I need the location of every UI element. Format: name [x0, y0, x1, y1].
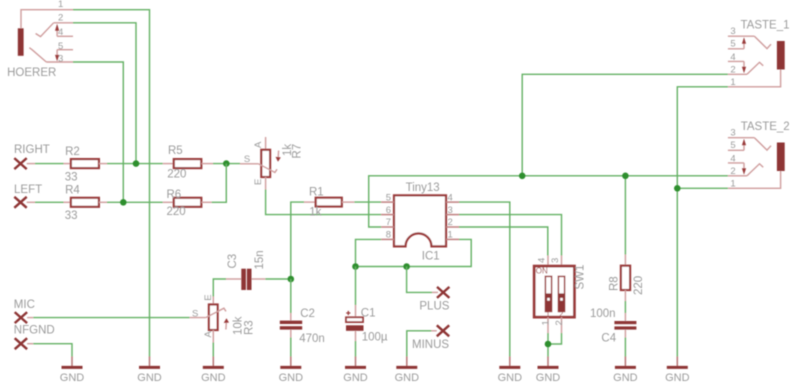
svg-text:4: 4 [448, 192, 453, 203]
wire R4 to R6 [107, 201, 163, 203]
wire SW1 pins to GND [547, 333, 549, 357]
ground C4 [613, 357, 638, 385]
TASTE_1 pin 1 [728, 70, 781, 87]
wire down to PLUS [407, 267, 432, 293]
wire IC pin8/pin1 net [356, 239, 472, 266]
svg-text:R1: R1 [309, 187, 324, 199]
HOERER pin 2 [54, 22, 73, 24]
HOERER pin 5 [57, 49, 73, 51]
wire C1 to GND [355, 341, 357, 357]
junction PLUS [403, 263, 410, 270]
svg-text:C4: C4 [601, 333, 616, 345]
svg-text:GND: GND [498, 372, 523, 384]
capacitor C4 [590, 308, 636, 344]
X mark RIGHT [14, 158, 26, 169]
wire C3 left to R3 E [213, 279, 226, 297]
svg-text:3: 3 [448, 205, 453, 216]
TASTE_1 pin 5 [728, 48, 744, 50]
svg-text:GND: GND [279, 372, 304, 384]
node MINUS [412, 325, 449, 351]
capacitor C2 [280, 308, 325, 345]
TASTE_1 arrow 4-2 [743, 61, 745, 67]
ground C2 [279, 357, 304, 385]
TASTE_2 pin 2 [728, 175, 747, 177]
svg-text:1: 1 [448, 230, 453, 241]
C1 plus mark [346, 311, 350, 315]
SW1 slider 2 [558, 276, 564, 311]
node RIGHT [14, 144, 50, 169]
trimmer R7 [240, 137, 303, 190]
ground MINUS [395, 357, 420, 385]
svg-text:100n: 100n [590, 308, 616, 320]
svg-text:5: 5 [730, 39, 735, 50]
svg-text:GND: GND [665, 372, 690, 384]
svg-text:MINUS: MINUS [412, 339, 449, 351]
svg-text:GND: GND [613, 372, 638, 384]
IC1 right pin stubs 4,3,2,1 [446, 202, 459, 239]
connector TASTE_1 [728, 20, 790, 89]
svg-text:4: 4 [730, 154, 735, 165]
svg-text:E: E [203, 294, 214, 300]
svg-text:33: 33 [65, 172, 78, 184]
wire C2 to GND [290, 338, 292, 357]
svg-text:5: 5 [58, 41, 63, 52]
svg-text:A: A [253, 141, 264, 148]
junction top net / R8 [622, 173, 629, 180]
resistor R2 [64, 146, 108, 184]
svg-text:Tiny13: Tiny13 [406, 182, 440, 194]
IC1 left pin stubs 5,6,7,8 [381, 202, 394, 239]
ground TASTE [665, 357, 690, 385]
wire R7 E to IC pin6 [266, 190, 382, 215]
svg-text:2: 2 [730, 166, 735, 177]
R7 arrow [277, 151, 279, 158]
svg-text:1: 1 [730, 77, 735, 88]
svg-text:8: 8 [386, 230, 391, 241]
wire R8 to C4 [624, 301, 626, 313]
svg-text:TASTE_1: TASTE_1 [741, 20, 790, 32]
HOERER arrow pin5-pin3 [56, 50, 58, 56]
svg-text:15n: 15n [254, 250, 266, 269]
TASTE_1 pin 3 [728, 35, 755, 37]
svg-text:GND: GND [137, 372, 162, 384]
capacitor C1 [346, 305, 388, 344]
wire HOERER pin3 to LEFT net [73, 62, 123, 202]
ground SW1 [536, 357, 561, 385]
wire HOERER pin1 to GND [73, 10, 150, 357]
svg-text:2: 2 [448, 217, 453, 228]
junction C1 [352, 263, 359, 270]
svg-text:4: 4 [58, 27, 63, 38]
svg-text:R3: R3 [243, 320, 255, 335]
wire R2 to R5 [107, 163, 163, 165]
TASTE_1 arm upper [754, 36, 771, 48]
svg-text:PLUS: PLUS [419, 300, 449, 312]
svg-text:1: 1 [730, 179, 735, 190]
wire R6 up to junction [212, 164, 227, 203]
wire IC pin4 to GND [459, 202, 510, 357]
wire C3 node to R1 [291, 202, 304, 279]
HOERER arrow pin2-pin4 [56, 31, 58, 37]
ground R3 [201, 357, 226, 385]
svg-text:GND: GND [395, 372, 420, 384]
svg-text:470n: 470n [299, 333, 325, 345]
trimmer R3 [190, 294, 256, 342]
svg-text:HOERER: HOERER [7, 67, 56, 79]
junction TASTE pin1 net [674, 185, 681, 192]
svg-text:R7: R7 [291, 144, 303, 159]
TASTE_2 pin 3 [728, 137, 755, 139]
svg-text:2: 2 [730, 65, 735, 76]
wire MIC to R3 S [33, 317, 189, 319]
wire TASTE_1 pin2 drop [522, 74, 728, 176]
TASTE_2 pin 1 [728, 171, 781, 188]
ground C1 [343, 357, 368, 385]
wire RIGHT net [35, 163, 64, 165]
svg-text:220: 220 [167, 168, 186, 180]
svg-text:TASTE_2: TASTE_2 [741, 121, 790, 133]
svg-text:C3: C3 [227, 254, 239, 269]
TASTE_2 arm upper [754, 138, 771, 150]
wire C3 right to junction [265, 278, 290, 280]
wire R1 to IC pin5 [354, 201, 381, 203]
junction C3/C2/R1 [288, 276, 295, 283]
TASTE_1 arm lower [747, 62, 763, 74]
svg-text:220: 220 [633, 276, 645, 295]
svg-text:GND: GND [201, 372, 226, 384]
TASTE_2 arm lower [747, 164, 763, 176]
svg-text:GND: GND [343, 372, 368, 384]
svg-text:ON: ON [536, 267, 548, 276]
TASTE_2 arrow 5-3 [743, 145, 745, 150]
svg-text:GND: GND [536, 372, 561, 384]
node MIC [14, 299, 35, 323]
svg-text:5: 5 [730, 140, 735, 151]
svg-text:3: 3 [730, 26, 735, 37]
TASTE_2 pin 5 [728, 149, 744, 151]
svg-text:R8: R8 [609, 276, 621, 291]
TASTE_1 pin 2 [728, 73, 747, 75]
wire LEFT net [35, 201, 64, 203]
junction on LEFT net [120, 199, 127, 206]
TASTE_1 sleeve bar [777, 41, 785, 70]
svg-text:E: E [253, 179, 264, 185]
svg-text:33: 33 [65, 210, 78, 222]
wire HOERER pin2 to RIGHT net [73, 23, 136, 164]
svg-text:100µ: 100µ [362, 332, 388, 344]
resistor R1 [304, 187, 354, 219]
wire IC pin3 to SW1 pin3 [459, 215, 562, 256]
wire MINUS to GND [407, 331, 432, 357]
svg-text:R5: R5 [168, 145, 183, 157]
junction R5/R6/R7 [223, 160, 230, 167]
switch SW1 [534, 256, 586, 334]
wire TASTE pin1 net to GND [677, 87, 728, 357]
capacitor C3 [226, 250, 266, 290]
TASTE_1 arrow 5-3 [743, 44, 745, 49]
IC1 Tiny13 body [381, 182, 459, 262]
svg-text:R2: R2 [65, 146, 80, 158]
wire junction to C2 [290, 279, 292, 313]
ground IC pin4 [498, 357, 523, 385]
svg-text:A: A [203, 331, 214, 338]
svg-text:220: 220 [167, 206, 186, 218]
svg-text:NFGND: NFGND [14, 325, 55, 337]
node NFGND [14, 325, 55, 350]
TASTE_2 arrow 4-2 [743, 163, 745, 169]
wire TASTE_2 pin1 [677, 187, 728, 189]
svg-text:1k: 1k [309, 207, 321, 219]
svg-text:GND: GND [60, 372, 85, 384]
wire IC pin7 to top net [369, 176, 728, 227]
svg-text:S: S [244, 154, 250, 165]
connector HOERER [7, 0, 73, 79]
svg-text:S: S [192, 308, 198, 319]
ground NFGND [60, 357, 85, 385]
ground HOERER pin1 [137, 357, 162, 385]
HOERER switch arm lower [29, 48, 46, 62]
HOERER pin 1 [21, 10, 73, 29]
svg-text:4: 4 [730, 52, 735, 63]
wire IC pin2 to SW1 pin4 [459, 227, 548, 256]
resistor R4 [64, 185, 108, 223]
connector TASTE_2 [728, 121, 790, 189]
svg-text:RIGHT: RIGHT [14, 144, 50, 156]
TASTE_2 sleeve bar [777, 143, 785, 172]
svg-text:MIC: MIC [14, 299, 35, 311]
wire top net to R8 [624, 176, 626, 255]
svg-text:5: 5 [386, 192, 391, 203]
TASTE_1 pin 4 [728, 60, 744, 62]
HOERER switch arm upper [36, 23, 54, 37]
svg-text:3: 3 [58, 54, 63, 65]
svg-text:C2: C2 [300, 308, 315, 320]
HOERER sleeve bar [18, 28, 24, 56]
wire C4 to GND [624, 338, 626, 357]
junction on RIGHT net [133, 160, 140, 167]
junction SW1 GND [545, 341, 552, 348]
R3 arrow [225, 323, 227, 330]
wire NFGND to GND [33, 344, 72, 357]
svg-text:6: 6 [386, 205, 391, 216]
node LEFT [14, 184, 42, 208]
TASTE_2 pin 4 [728, 162, 744, 164]
SW1 slider 1 [545, 276, 551, 311]
resistor R5 [163, 145, 213, 180]
wire R3 A to GND [212, 343, 214, 357]
svg-text:2: 2 [58, 13, 63, 24]
svg-text:SW1: SW1 [575, 265, 587, 290]
HOERER pin 3 [46, 61, 73, 63]
junction top net / TASTE_1 [519, 173, 526, 180]
svg-text:1: 1 [541, 320, 552, 325]
svg-text:3: 3 [550, 258, 561, 263]
svg-text:3: 3 [730, 128, 735, 139]
wire R5 to R7 S [213, 163, 240, 165]
svg-text:IC1: IC1 [422, 251, 440, 263]
svg-text:2: 2 [554, 320, 565, 325]
svg-text:R4: R4 [65, 185, 80, 197]
resistor R6 [163, 189, 212, 218]
node PLUS [419, 287, 449, 313]
svg-text:1: 1 [58, 0, 63, 10]
R7 wiper [258, 164, 277, 173]
svg-text:LEFT: LEFT [14, 184, 42, 196]
wire down to C1 [355, 267, 357, 306]
svg-text:7: 7 [386, 217, 391, 228]
svg-text:R6: R6 [167, 189, 182, 201]
HOERER pin 4 [57, 35, 73, 37]
X mark LEFT [14, 197, 26, 208]
svg-text:C1: C1 [361, 307, 376, 319]
R3 wiper [206, 308, 226, 317]
resistor R8 [609, 255, 646, 302]
svg-text:4: 4 [537, 258, 548, 263]
